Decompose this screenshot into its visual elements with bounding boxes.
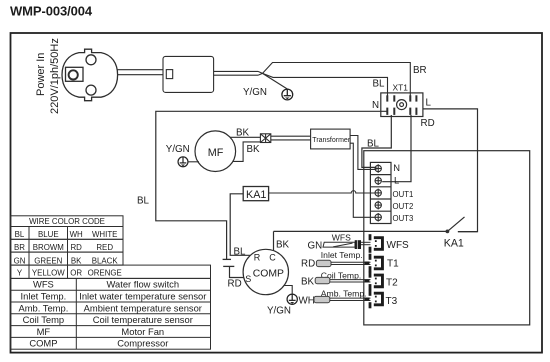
svg-text:Y/GN: Y/GN <box>166 144 190 155</box>
svg-text:Water flow switch: Water flow switch <box>107 279 180 290</box>
svg-text:Transformer: Transformer <box>312 137 351 144</box>
svg-text:WFS: WFS <box>387 240 410 251</box>
svg-text:S: S <box>245 274 251 284</box>
svg-text:T1: T1 <box>387 259 399 270</box>
svg-text:BK: BK <box>247 144 261 155</box>
svg-text:OUT3: OUT3 <box>393 214 414 223</box>
svg-text:Ambient temperature sensor: Ambient temperature sensor <box>84 302 202 313</box>
svg-text:BL: BL <box>137 196 150 207</box>
svg-text:GN: GN <box>14 256 26 265</box>
svg-text:BLACK: BLACK <box>92 256 119 265</box>
svg-text:Inlet water temperature sensor: Inlet water temperature sensor <box>79 291 206 302</box>
svg-text:MF: MF <box>208 147 224 159</box>
svg-text:BR: BR <box>413 65 427 76</box>
svg-text:T3: T3 <box>386 296 398 307</box>
svg-text:Coil temperature sensor: Coil temperature sensor <box>93 314 193 325</box>
svg-text:RED: RED <box>96 243 113 252</box>
svg-text:OR: OR <box>70 269 82 278</box>
svg-text:RD: RD <box>421 118 435 129</box>
svg-text:Coil Temp: Coil Temp <box>23 314 65 325</box>
svg-text:GREEN: GREEN <box>34 256 62 265</box>
svg-text:WIRE COLOR CODE: WIRE COLOR CODE <box>29 217 105 226</box>
svg-text:BK: BK <box>236 128 250 139</box>
svg-text:BK: BK <box>301 276 315 287</box>
svg-text:Inlet Temp.: Inlet Temp. <box>21 291 67 302</box>
svg-text:Power In: Power In <box>35 53 47 96</box>
svg-text:Motor Fan: Motor Fan <box>121 326 164 337</box>
svg-text:KA1: KA1 <box>246 189 266 201</box>
svg-text:YELLOW: YELLOW <box>32 269 65 278</box>
svg-text:Y/GN: Y/GN <box>267 306 291 317</box>
svg-text:COMP: COMP <box>29 338 57 349</box>
svg-text:BK: BK <box>276 240 290 251</box>
svg-text:XT1: XT1 <box>393 83 409 93</box>
svg-text:BK: BK <box>71 256 82 265</box>
svg-text:N: N <box>393 162 400 173</box>
svg-text:BL: BL <box>373 79 386 90</box>
svg-text:L: L <box>426 98 432 109</box>
svg-text:Compressor: Compressor <box>117 338 168 349</box>
svg-text:ORENGE: ORENGE <box>88 269 122 278</box>
svg-text:Inlet Temp.: Inlet Temp. <box>321 250 363 260</box>
svg-text:BROWM: BROWM <box>33 243 64 252</box>
svg-text:Amb. Temp.: Amb. Temp. <box>18 302 68 313</box>
svg-text:MF: MF <box>37 326 51 337</box>
svg-text:WH: WH <box>70 230 83 239</box>
svg-text:WHITE: WHITE <box>92 230 117 239</box>
svg-text:WFS: WFS <box>33 279 54 290</box>
svg-text:KA1: KA1 <box>444 237 464 249</box>
svg-text:Y: Y <box>17 269 23 278</box>
svg-text:L: L <box>394 175 399 186</box>
svg-text:WFS: WFS <box>332 233 351 243</box>
svg-text:WMP-003/004: WMP-003/004 <box>10 4 93 19</box>
svg-text:Y/GN: Y/GN <box>243 87 267 98</box>
svg-text:T2: T2 <box>386 278 398 289</box>
svg-text:BLUE: BLUE <box>38 230 59 239</box>
svg-text:C: C <box>269 253 276 263</box>
svg-text:COMP: COMP <box>253 269 284 280</box>
svg-text:220V/1ph/50Hz: 220V/1ph/50Hz <box>49 38 61 114</box>
svg-text:OUT1: OUT1 <box>393 190 414 199</box>
svg-text:N: N <box>372 100 379 111</box>
svg-text:RD: RD <box>228 279 242 290</box>
svg-text:RD: RD <box>301 258 315 269</box>
svg-text:WH: WH <box>299 295 315 306</box>
svg-text:RD: RD <box>70 243 82 252</box>
svg-text:BR: BR <box>14 243 25 252</box>
svg-text:OUT2: OUT2 <box>393 202 414 211</box>
svg-text:R: R <box>254 253 261 263</box>
svg-text:BL: BL <box>234 246 247 257</box>
svg-text:BL: BL <box>15 230 25 239</box>
